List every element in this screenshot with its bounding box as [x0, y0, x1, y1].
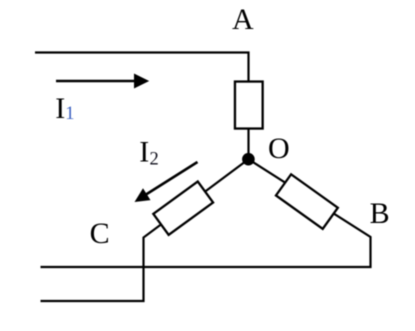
svg-text:B: B [370, 197, 390, 230]
svg-text:C: C [90, 217, 110, 250]
svg-text:I: I [139, 135, 149, 168]
svg-text:O: O [268, 132, 290, 165]
svg-text:I: I [55, 92, 65, 125]
svg-text:1: 1 [65, 104, 74, 124]
svg-text:2: 2 [150, 149, 159, 169]
svg-text:A: A [232, 3, 254, 36]
